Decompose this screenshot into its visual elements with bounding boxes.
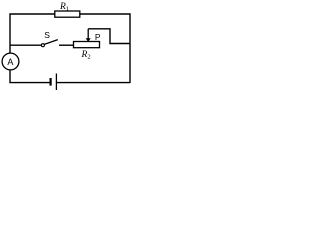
slider P arrow [86,29,91,42]
wire [88,29,130,44]
wire [10,70,50,83]
wire [80,14,130,83]
label S [44,30,50,40]
label R1 [59,2,69,13]
ammeter A [2,53,19,70]
svg-text:A: A [7,57,13,67]
switch S [41,40,57,47]
rheostat R2 [74,42,100,48]
svg-text:P: P [95,32,101,42]
svg-text:S: S [44,30,50,40]
label P [95,32,101,42]
battery cell [51,74,57,91]
wire [59,44,73,46]
resistor R1 [55,11,80,17]
wire [57,82,130,84]
wire [10,44,41,46]
wire [10,14,55,53]
label R2 [81,50,91,61]
